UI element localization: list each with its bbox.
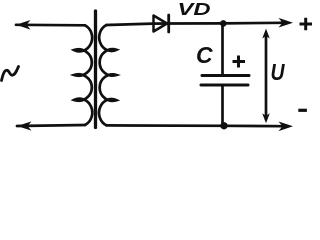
- capacitor C bottom lead: [221, 87, 224, 126]
- wire top-left (primary top lead): [16, 23, 85, 26]
- svg-text:VD: VD: [178, 0, 211, 19]
- capacitor C top plate: [202, 74, 249, 77]
- plus sign at + output: [300, 18, 313, 31]
- transformer T1 core: [94, 11, 97, 128]
- diode VD cathode bar: [167, 15, 170, 32]
- capacitor C bottom plate: [201, 84, 248, 87]
- arrowhead right on top wire (+ output): [279, 18, 294, 28]
- voltage arrow U head down: [262, 113, 270, 123]
- wire bottom from transformer to - output: [107, 124, 283, 127]
- voltage arrow U shaft: [265, 33, 268, 119]
- svg-text:U: U: [271, 59, 286, 85]
- wire transformer to diode: [107, 24, 169, 26]
- junction dot bottom (capacitor node): [220, 122, 227, 129]
- svg-text:C: C: [196, 42, 213, 68]
- junction dot top (diode-capacitor node): [220, 20, 227, 27]
- transformer T1 primary winding: [74, 25, 92, 125]
- voltage arrow U head up: [262, 29, 270, 39]
- plus sign near capacitor: [233, 56, 246, 68]
- arrowhead left on top wire: [16, 20, 31, 30]
- wire diode to junction to + output: [169, 21, 282, 24]
- minus sign at - output: [298, 109, 307, 112]
- wire bottom-left (primary bottom lead): [17, 125, 85, 126]
- transformer T1 secondary winding: [99, 25, 116, 125]
- capacitor C top lead: [221, 23, 224, 74]
- diode VD triangle: [154, 16, 168, 32]
- arrowhead right on bottom wire (- output): [279, 122, 294, 132]
- arrowhead left on bottom wire: [17, 121, 32, 130]
- AC source symbol ~: [2, 67, 19, 81]
